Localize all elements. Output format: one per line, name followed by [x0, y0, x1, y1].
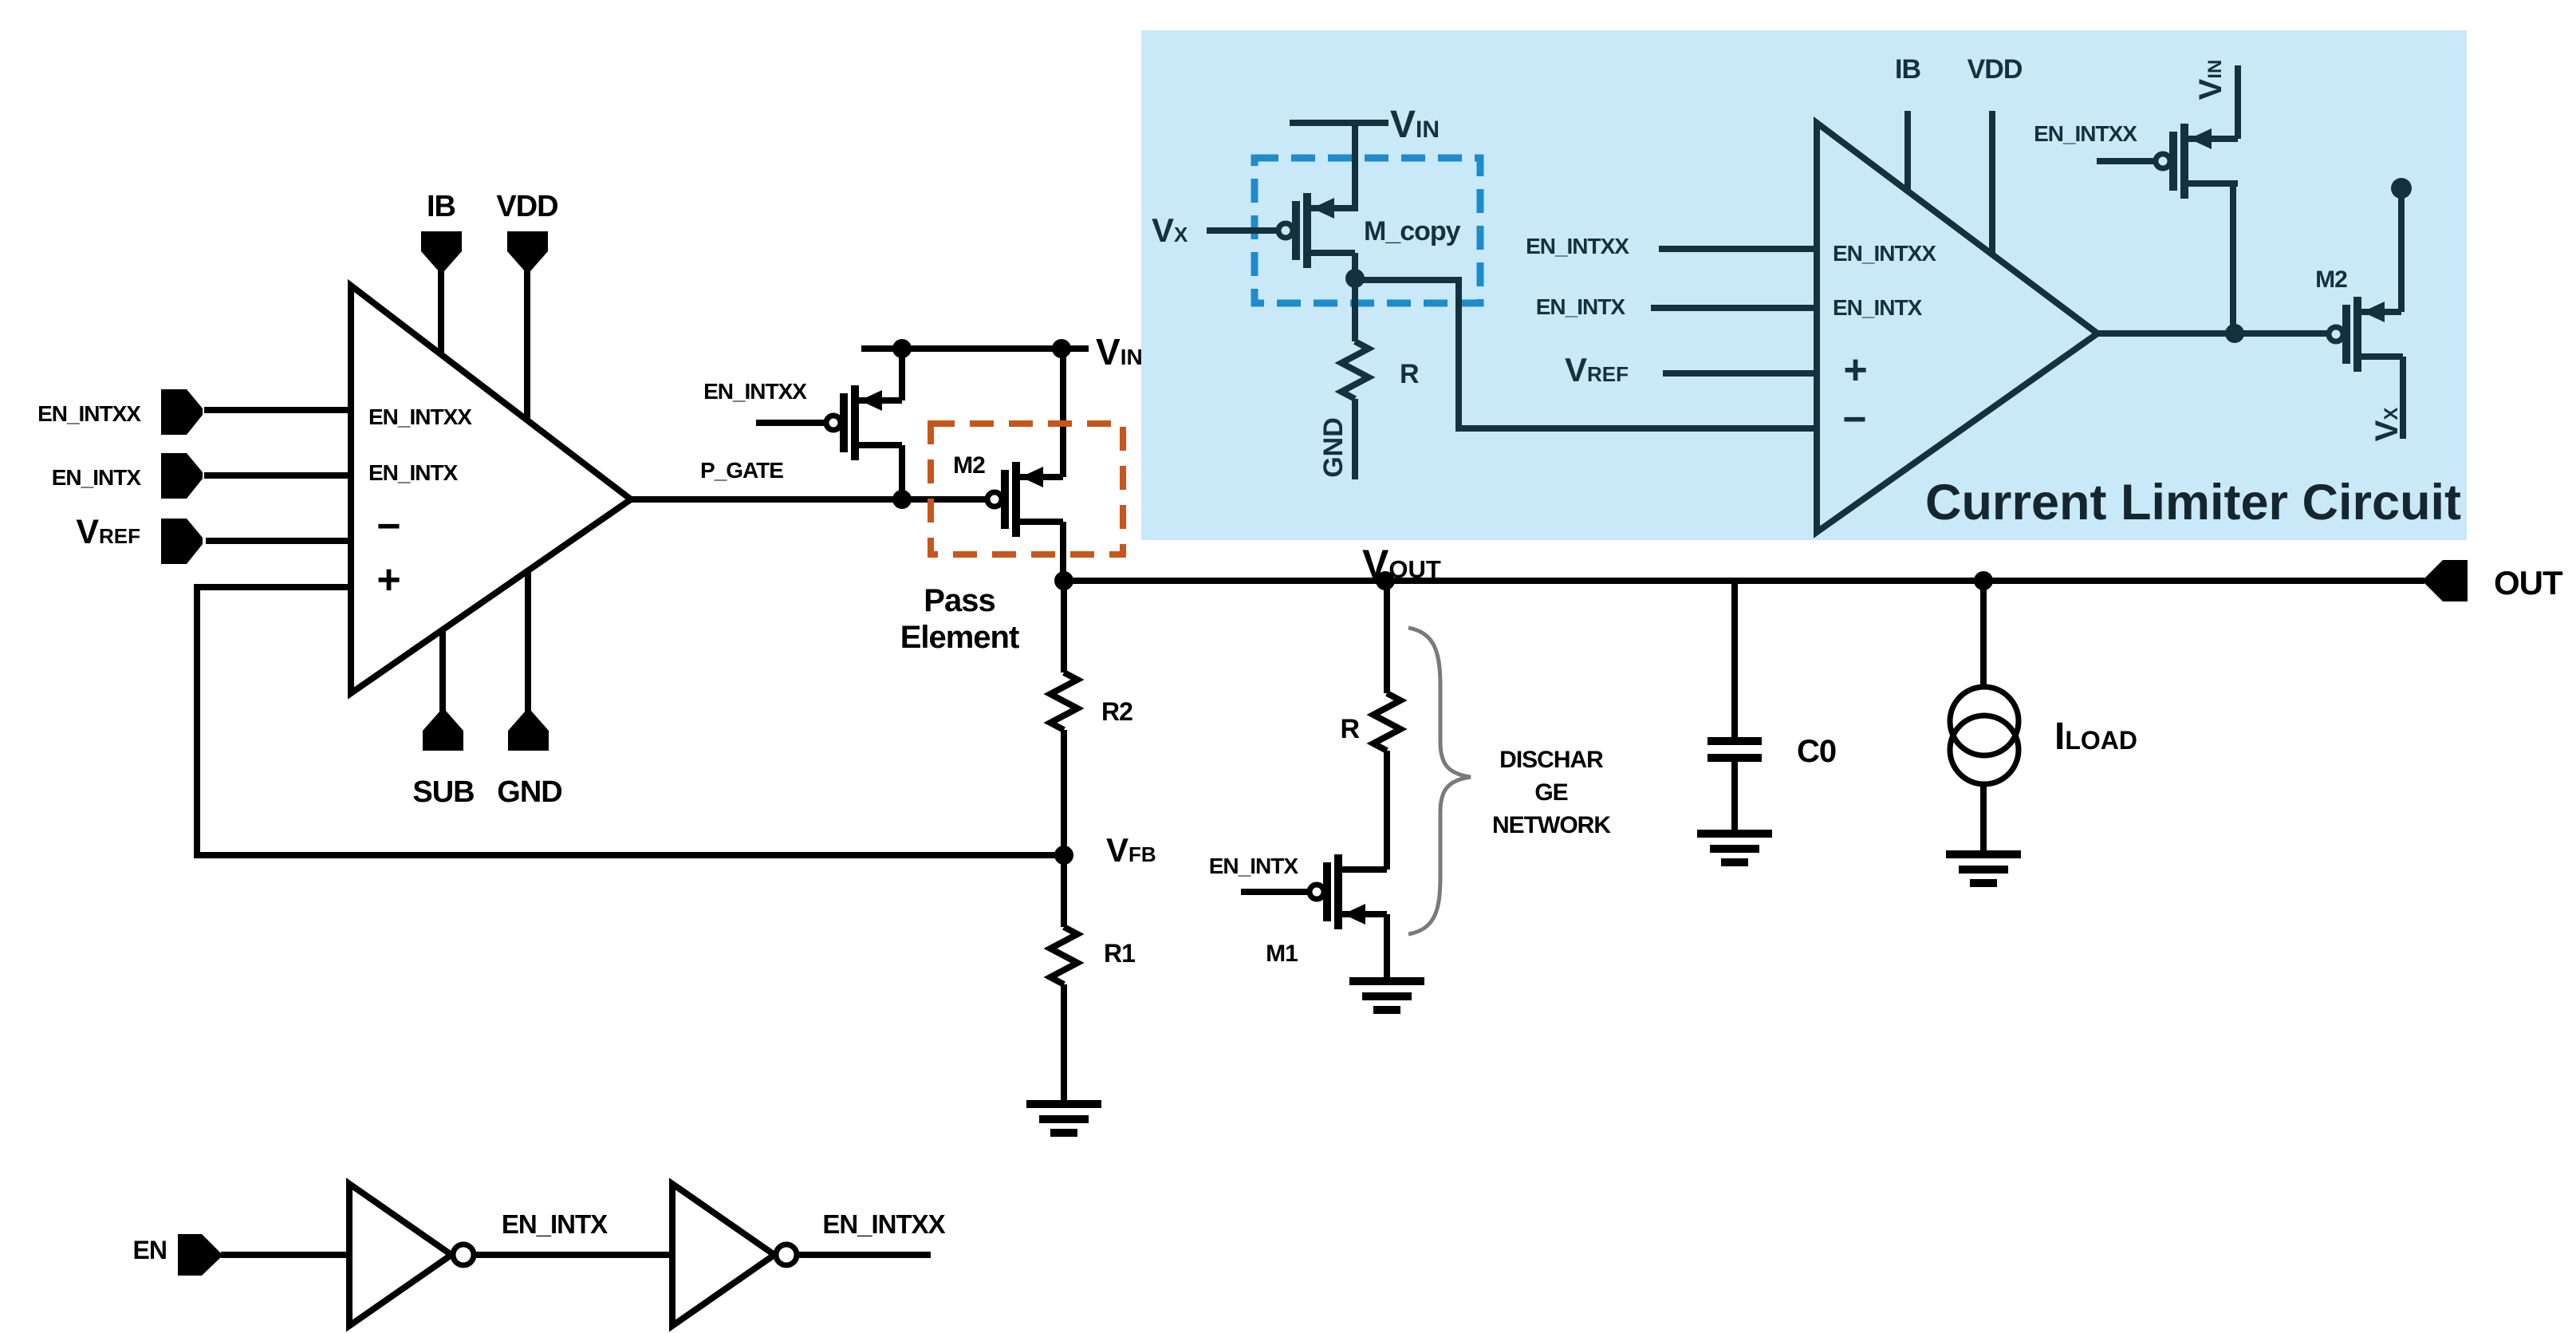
svg-text:IB: IB — [1895, 54, 1920, 85]
svg-text:GND: GND — [1318, 417, 1349, 478]
svg-text:R: R — [1400, 359, 1419, 389]
svg-text:Pass: Pass — [924, 583, 995, 618]
svg-text:Current Limiter Circuit: Current Limiter Circuit — [1925, 475, 2461, 530]
svg-text:+: + — [376, 557, 400, 603]
svg-text:−: − — [1842, 396, 1865, 443]
svg-text:EN_INTX: EN_INTX — [1833, 295, 1923, 320]
svg-text:EN_INTX: EN_INTX — [368, 460, 459, 485]
svg-text:M_copy: M_copy — [1364, 216, 1461, 246]
svg-text:EN_INTX: EN_INTX — [502, 1209, 608, 1239]
svg-text:SUB: SUB — [412, 775, 474, 809]
svg-text:EN_INTXX: EN_INTXX — [368, 404, 472, 429]
svg-text:+: + — [1843, 347, 1866, 393]
svg-text:EN_INTXX: EN_INTXX — [822, 1209, 945, 1239]
svg-text:EN_INTXX: EN_INTXX — [703, 379, 807, 404]
svg-text:R: R — [1340, 714, 1359, 744]
svg-text:EN_INTXX: EN_INTXX — [1526, 234, 1629, 258]
svg-text:C0: C0 — [1797, 734, 1836, 769]
svg-text:EN_INTXX: EN_INTXX — [1833, 241, 1936, 266]
svg-text:P_GATE: P_GATE — [700, 458, 783, 483]
svg-text:Element: Element — [900, 620, 1019, 655]
svg-text:M2: M2 — [953, 452, 985, 479]
svg-text:EN_INTXX: EN_INTXX — [2034, 121, 2137, 146]
svg-text:R2: R2 — [1101, 697, 1132, 726]
svg-text:R1: R1 — [1104, 939, 1135, 968]
svg-text:DISCHAR: DISCHAR — [1499, 747, 1604, 773]
svg-text:EN_INTXX: EN_INTXX — [37, 401, 141, 426]
svg-text:NETWORK: NETWORK — [1492, 812, 1611, 838]
svg-text:M1: M1 — [1266, 941, 1298, 967]
svg-text:GE: GE — [1534, 779, 1567, 806]
svg-text:VDD: VDD — [496, 190, 557, 223]
svg-text:EN_INTX: EN_INTX — [52, 465, 142, 490]
svg-text:EN: EN — [133, 1236, 167, 1264]
svg-text:EN_INTX: EN_INTX — [1536, 294, 1626, 319]
svg-text:−: − — [376, 503, 400, 550]
svg-text:IB: IB — [427, 190, 455, 223]
svg-text:OUT: OUT — [2494, 564, 2563, 601]
svg-text:M2: M2 — [2315, 266, 2347, 293]
svg-text:EN_INTX: EN_INTX — [1209, 854, 1299, 878]
svg-text:GND: GND — [497, 775, 561, 809]
svg-text:VDD: VDD — [1967, 54, 2023, 85]
